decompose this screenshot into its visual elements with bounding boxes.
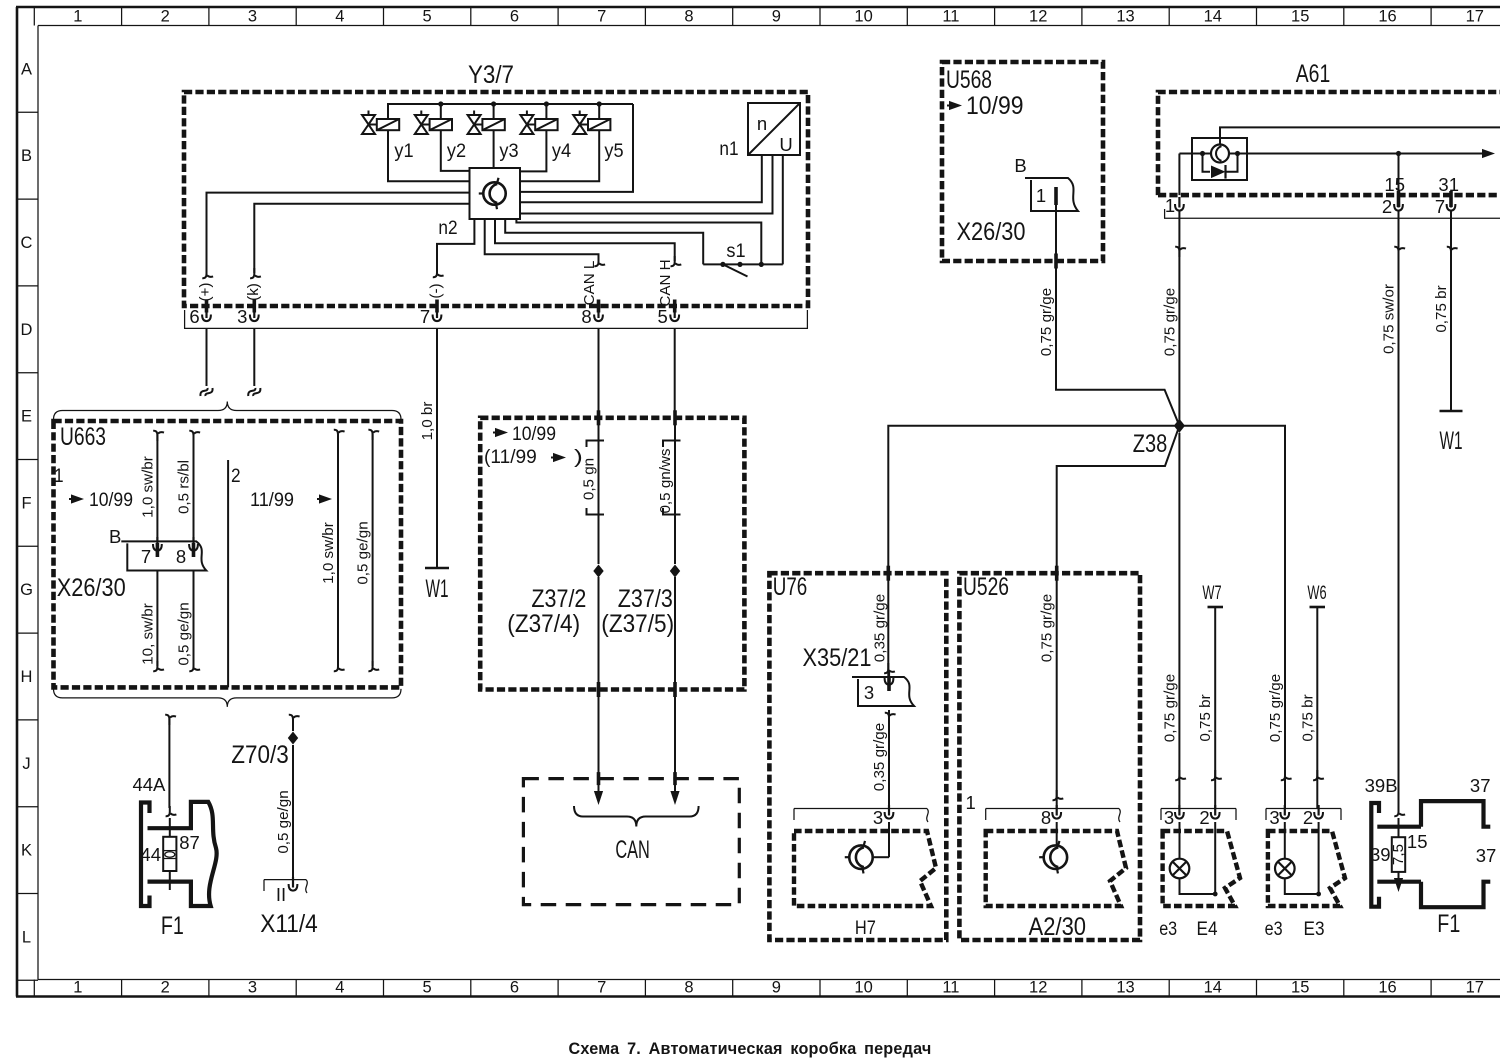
wire circuit 44A to fuse F1 [132,715,176,808]
wire A61 pin 1 internal [1178,154,1180,196]
svg-text:0,75 br: 0,75 br [1299,694,1316,741]
svg-text:3: 3 [1269,807,1279,828]
svg-text:e3: e3 [1159,918,1177,940]
wire 0,5 gn/ws with connector marks [657,410,681,564]
wire 0,5 gn with connector marks [581,410,605,564]
lamp e3 E4 [1159,822,1240,940]
svg-text:2: 2 [161,979,170,997]
svg-text:31: 31 [1438,174,1459,195]
wire pump to pin 5 CAN H [495,219,681,307]
svg-text:3: 3 [864,682,874,703]
svg-text:1,0 sw/br: 1,0 sw/br [320,522,337,584]
wire 0,75 gr/ge in U526 [1039,566,1064,809]
svg-text:10/99: 10/99 [966,92,1024,120]
svg-text:E3: E3 [1304,918,1325,940]
wire from component top in A61 [1220,127,1500,144]
fuse box F1 left outline [141,802,217,906]
pin bracket 8 of A2/30 [966,792,1121,828]
junction dots on valve bus [438,101,602,106]
section 1 label of U663 [54,465,133,511]
svg-text:B: B [21,147,32,165]
svg-text:0,75 gr/ge: 0,75 gr/ge [1039,594,1056,662]
wire pin 8 CAN L down [598,328,600,417]
node Z70/3 and wire 0,5 ge/gn [231,715,299,880]
svg-text:Z38: Z38 [1133,430,1168,458]
svg-text:11: 11 [942,8,959,26]
connector X35/21 pin 3 [803,644,915,706]
svg-text:4: 4 [335,979,344,997]
svg-text:1,0 sw/br: 1,0 sw/br [139,456,156,518]
svg-text:n: n [757,113,767,134]
wire Z38 to U76 branch [888,426,1179,677]
svg-text:n1: n1 [719,138,738,160]
svg-text:3: 3 [248,979,257,997]
wire valve y3 to pump [493,130,495,168]
solenoid valve y5 [573,104,624,162]
svg-text:6: 6 [189,306,199,327]
svg-text:K: K [21,842,32,860]
pin 1 of A61 [1165,195,1184,216]
svg-text:2: 2 [161,8,170,26]
svg-text:14: 14 [1204,8,1222,26]
connector strip of A61 [1164,209,1500,218]
ground W1 right [1440,411,1463,455]
svg-text:0,75 gr/ge: 0,75 gr/ge [1038,288,1055,356]
svg-text:X35/21: X35/21 [803,644,872,672]
svg-text:G: G [20,581,33,599]
svg-text:2: 2 [231,465,241,487]
wire 0,35 gr/ge lower in U76 [871,710,896,809]
svg-text:10: 10 [854,979,872,997]
svg-text:9: 9 [772,979,781,997]
wire pump to n1 left [520,155,762,202]
svg-text:7: 7 [420,306,430,327]
instrument component in A61 [1179,138,1398,180]
svg-text:11/99: 11/99 [250,489,294,511]
wire 0,75 gr/ge U568 to Z38 [1038,205,1179,426]
svg-text:Z70/3: Z70/3 [231,741,289,769]
svg-text:15: 15 [1384,174,1405,195]
svg-text:4: 4 [335,8,344,26]
svg-text:B: B [1014,155,1026,176]
control unit Y3/7 box [184,61,808,306]
svg-text:10/99: 10/99 [512,423,556,445]
svg-text:1: 1 [1036,185,1046,206]
svg-text:10, sw/br: 10, sw/br [139,603,156,665]
svg-text:0,5 ge/gn: 0,5 ge/gn [176,602,193,665]
control unit U568 box [942,62,1103,261]
svg-text:1: 1 [54,465,64,487]
svg-text:0,5 ge/gn: 0,5 ge/gn [275,790,292,853]
section divider in U663 [227,460,229,687]
CAN brace and label [574,806,699,864]
svg-text:1: 1 [73,8,82,26]
svg-text:2: 2 [1199,807,1209,828]
svg-text:H: H [21,668,33,686]
svg-text:17: 17 [1466,8,1484,26]
pin bracket 3 of H7 [794,805,928,828]
svg-text:0,75 gr/ge: 0,75 gr/ge [1161,288,1178,356]
wire pump to switch s1 [505,219,703,264]
svg-text:5: 5 [423,8,432,26]
svg-text:7: 7 [1435,196,1445,217]
connector X11/4 pin II [260,877,318,938]
arrow (11/99) label in junction box [484,446,583,468]
svg-text:U568: U568 [946,66,992,94]
n/U converter n1 [719,103,800,160]
svg-text:87: 87 [179,832,200,853]
svg-text:A2/30: A2/30 [1029,913,1087,941]
wire valve y5 to pump [520,130,599,181]
svg-text:s1: s1 [726,240,745,262]
svg-text:L: L [22,928,31,946]
wire pin 5 CAN H down [674,328,676,417]
wire 1,0 br pin 7 to ground W1 [419,328,437,568]
svg-text:9: 9 [772,8,781,26]
speed sensor n2 (pump symbol) [438,168,520,239]
wire 0,5 ge/gn right in U663 [355,430,380,671]
horn H7 [794,822,936,939]
section 2 label of U663 [231,465,332,511]
svg-text:44A: 44A [132,774,166,795]
wire pump to pin 3 (k) [245,204,470,301]
pin 6 of Y3/7 [189,300,211,328]
svg-text:CAN L: CAN L [581,261,598,306]
svg-text:C: C [21,234,33,252]
pin bracket of lamp E4 [1161,805,1236,828]
fuse box F1 right outline [1365,775,1491,907]
arrow 10/99 label in junction box [493,423,556,445]
wire A61 pin 15 internal [1398,154,1400,196]
node Z37/3 (Z37/5) [601,565,680,639]
wire Z38 to lamp E3 branch [1179,426,1291,809]
svg-text:II: II [276,884,286,905]
svg-text:(Z37/4): (Z37/4) [507,610,580,638]
svg-text:16: 16 [1378,979,1396,997]
solenoid valve y1 [362,111,414,163]
svg-text:44: 44 [140,844,161,865]
svg-text:W7: W7 [1202,582,1221,604]
wire valve y4 to pump [520,130,546,171]
svg-text:39B: 39B [1365,775,1398,796]
svg-text:J: J [22,755,30,773]
svg-text:8: 8 [684,979,693,997]
svg-text:7: 7 [141,546,151,567]
svg-text:6: 6 [510,8,519,26]
svg-text:2: 2 [1382,196,1392,217]
svg-text:Y3/7: Y3/7 [468,61,514,89]
svg-text:7,5: 7,5 [1390,844,1407,865]
svg-text:17: 17 [1466,979,1484,997]
svg-text:10: 10 [854,8,872,26]
pin 31/7 of A61 [1435,174,1459,217]
svg-text:11: 11 [942,979,959,997]
svg-text:39: 39 [1370,844,1391,865]
svg-text:12: 12 [1029,979,1047,997]
pin 8 of Y3/7 [581,300,603,328]
svg-text:X26/30: X26/30 [957,218,1026,246]
valve supply bus wire [388,104,633,119]
svg-text:(k): (k) [245,283,262,301]
svg-text:0,5 ge/gn: 0,5 ge/gn [355,521,372,584]
solenoid valve y2 [415,104,466,162]
svg-text:6: 6 [510,979,519,997]
svg-text:(Z37/5): (Z37/5) [601,610,674,638]
wire 0,75 gr/ge A61 pin 1 to node Z38 [1161,211,1186,426]
svg-text:F1: F1 [161,912,184,940]
svg-text:n2: n2 [438,217,457,239]
svg-text:0,5 rs/bl: 0,5 rs/bl [176,460,193,514]
svg-text:U663: U663 [60,423,106,451]
control module A2/30 [986,822,1126,941]
wire Z38 down to lamp E4 [1161,433,1186,809]
svg-text:CAN: CAN [615,836,650,864]
wire 0,75 sw/or A61 pin 2 to fuse F1 [1381,211,1406,810]
svg-text:E4: E4 [1197,918,1218,940]
svg-text:2: 2 [1303,807,1313,828]
svg-text:5: 5 [658,306,668,327]
svg-text:0,5 gn: 0,5 gn [581,458,598,500]
svg-text:37: 37 [1470,775,1491,796]
svg-text:Z37/2: Z37/2 [531,585,586,613]
fuse 44 element in F1 [140,806,199,940]
connector strip of Y3/7 [184,310,808,328]
wire pump to n1 middle [520,155,773,214]
svg-text:0,75 br: 0,75 br [1197,694,1214,741]
wire pump to pin 6 (+) [197,193,470,302]
node Z38 [1133,419,1185,458]
svg-text:X26/30: X26/30 [57,574,126,602]
svg-text:H7: H7 [855,917,876,939]
svg-text:y4: y4 [552,140,571,162]
svg-text:0,35 gr/ge: 0,35 gr/ge [871,594,888,662]
svg-text:E: E [21,408,32,426]
svg-text:A: A [21,60,32,78]
svg-text:(11/99: (11/99 [484,446,537,468]
arrow 10/99 in U568 [947,92,1024,120]
ground W7 [1197,582,1223,809]
svg-text:0,75 gr/ge: 0,75 gr/ge [1161,674,1178,742]
CAN bus box [523,779,739,905]
solenoid valve y4 [520,104,571,162]
svg-text:W1: W1 [426,575,449,603]
control unit U76 box [769,573,946,940]
svg-text:10/99: 10/99 [89,489,133,511]
wire 0,75 br A61 pin 7 to ground W1 [1433,211,1458,411]
wire valve y2 to pump [441,130,470,171]
svg-text:A61: A61 [1296,60,1331,88]
wire s1 to n1 [782,155,784,264]
pin 3 of Y3/7 [237,300,259,328]
lamp e3 E3 [1265,822,1345,940]
svg-text:U526: U526 [963,573,1009,601]
svg-text:37: 37 [1476,845,1497,866]
svg-text:12: 12 [1029,8,1047,26]
wire A61 output with arrow [1396,149,1495,158]
svg-text:y1: y1 [394,140,413,162]
solenoid valve y3 [468,104,519,162]
svg-text:8: 8 [176,546,186,567]
svg-text:15: 15 [1291,979,1309,997]
wire pin 3 with break [248,328,260,396]
wire 1,0 sw/br upper in U663 [139,431,164,542]
wire pump to pin 8 CAN L [485,219,605,305]
svg-text:0,35 gr/ge: 0,35 gr/ge [871,723,888,791]
wire CAN L to CAN bus [594,577,603,805]
svg-text:5: 5 [423,979,432,997]
svg-text:7: 7 [597,8,606,26]
fuse 39 element 7,5A in F1 right [1370,806,1496,938]
svg-text:0,5 gn/ws: 0,5 gn/ws [657,448,674,513]
node Z37/2 (Z37/4) [507,565,603,639]
svg-text:3: 3 [1164,807,1174,828]
svg-text:1,0 br: 1,0 br [419,402,436,441]
wire 0,5 rs/bl upper in U663 [176,431,201,542]
svg-text:y2: y2 [447,140,466,162]
svg-text:1: 1 [966,792,976,813]
ground W6 [1299,582,1326,809]
svg-text:3: 3 [873,807,883,828]
svg-text:y3: y3 [499,140,518,162]
wire CAN H to CAN bus [670,577,679,805]
svg-text:15: 15 [1291,8,1309,26]
svg-text:8: 8 [581,306,591,327]
svg-text:15: 15 [1407,831,1428,852]
wire 0,5 ge/gn lower in U663 [176,572,201,672]
svg-text:y5: y5 [604,140,623,162]
svg-text:0,75 gr/ge: 0,75 gr/ge [1267,674,1284,742]
pin 7 of Y3/7 [420,300,442,328]
connector X26/30 pins 7 8 (B) in U663 [57,526,207,602]
svg-text:1: 1 [1165,195,1175,216]
control unit A61 box [1158,60,1500,195]
svg-text:Схема 7. Автоматическая коробк: Схема 7. Автоматическая коробка передач [569,1040,932,1058]
svg-text:7: 7 [597,979,606,997]
svg-text:B: B [109,526,121,547]
wire Z38 to U526 branch [1057,426,1180,573]
svg-text:D: D [21,321,33,339]
svg-text:13: 13 [1116,979,1134,997]
svg-text:e3: e3 [1265,918,1283,940]
wire 1,0 sw/br lower in U663 [139,572,164,672]
pin 15/2 of A61 [1382,174,1405,217]
svg-text:X11/4: X11/4 [260,910,318,938]
svg-text:8: 8 [684,8,693,26]
svg-text:14: 14 [1204,979,1222,997]
svg-text:(+): (+) [197,283,214,302]
svg-text:CAN H: CAN H [657,259,674,306]
wire pump to pin 7 (-) [428,219,475,299]
svg-text:3: 3 [248,8,257,26]
svg-text:F1: F1 [1437,910,1460,938]
svg-text:W1: W1 [1440,427,1463,455]
svg-text:F: F [21,494,31,512]
wire pin 6 with break [200,328,212,396]
wire valve y1 to pump [388,130,470,181]
svg-text:Z37/3: Z37/3 [618,585,673,613]
svg-text:W6: W6 [1307,582,1326,604]
svg-text:1: 1 [73,979,82,997]
wire bus to pump [520,104,633,192]
connector X26/30 pin 1 (B) in U568 [957,155,1079,246]
control unit U663 box with braces [54,402,402,707]
svg-text:16: 16 [1378,8,1396,26]
svg-text:0,75 sw/or: 0,75 sw/or [1381,284,1398,354]
wire 1,0 sw/br right in U663 [320,430,345,671]
svg-text:0,75 br: 0,75 br [1433,285,1450,332]
svg-text:U: U [779,134,792,155]
svg-text:U76: U76 [773,573,808,601]
wire pump to s1 junction [516,219,761,264]
pin bracket of lamp E3 [1266,805,1341,828]
switch s1 [703,240,783,277]
svg-text:13: 13 [1116,8,1134,26]
svg-text:8: 8 [1041,807,1051,828]
control unit U526 box [959,573,1140,940]
wire 0,35 gr/ge upper in U76 [871,594,895,673]
ground W1 left [425,568,449,603]
svg-text:(-): (-) [428,283,445,298]
pin 5 of Y3/7 [658,300,680,328]
svg-text:3: 3 [237,306,247,327]
junction box 10/99 - 11/99 [480,418,744,690]
